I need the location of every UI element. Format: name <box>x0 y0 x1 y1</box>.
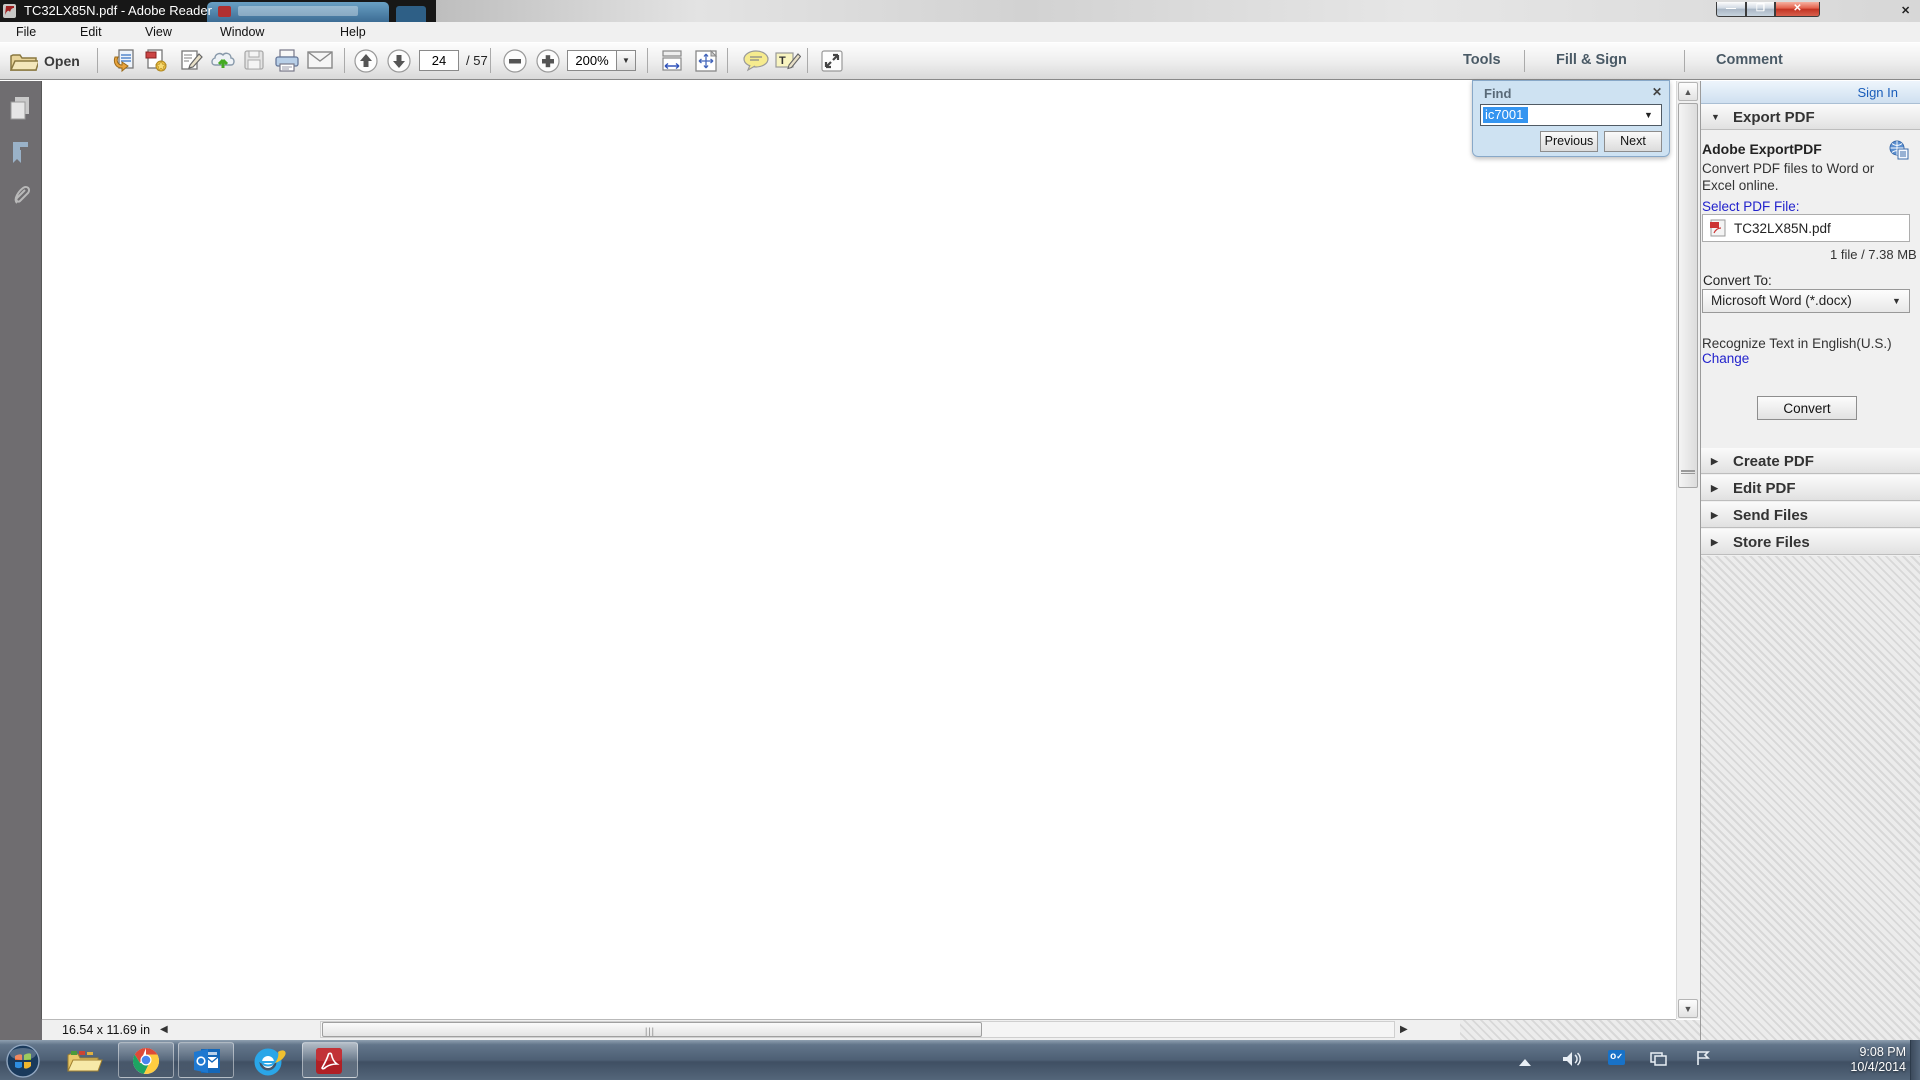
svg-text:T: T <box>779 55 786 67</box>
toolbar <box>0 42 1920 80</box>
taskbar <box>0 1040 1920 1080</box>
find dialog <box>1472 80 1670 157</box>
menu bar <box>0 22 1920 42</box>
document <box>42 81 1676 1019</box>
nav strip icons <box>0 81 42 1040</box>
status bar <box>42 1019 1676 1040</box>
vertical scrollbar <box>1676 81 1700 1019</box>
sidebar <box>1700 81 1920 1040</box>
window title bar <box>0 0 1920 22</box>
